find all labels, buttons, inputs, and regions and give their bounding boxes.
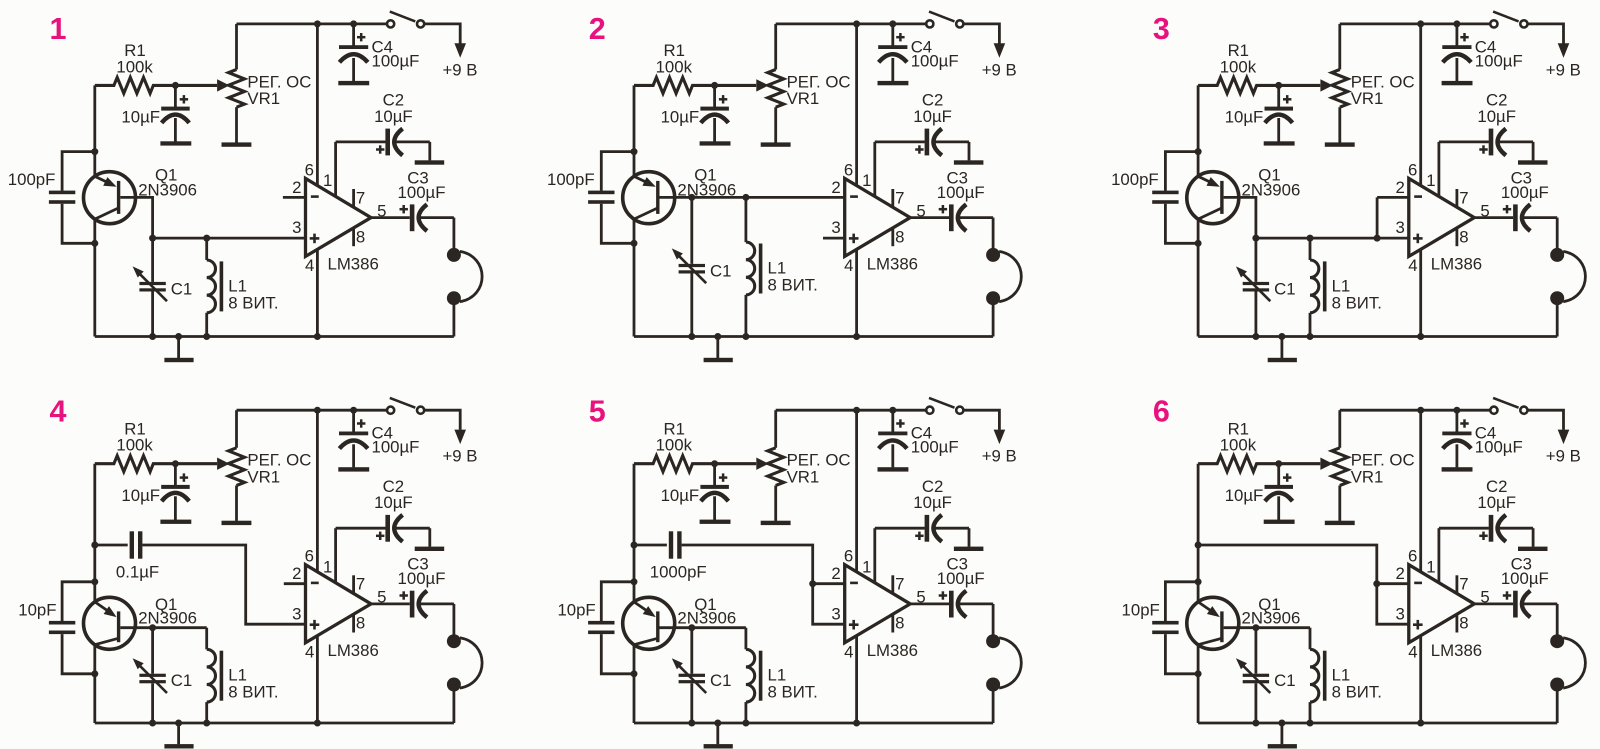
pin 5 output wire — [1474, 201, 1513, 220]
wire C3 to jack — [1556, 218, 1559, 249]
ground (C2) — [415, 547, 445, 551]
op-amp U1 LM386 — [845, 178, 918, 273]
capacitor C3 100uF (polarized) — [398, 555, 454, 618]
pin 5 output wire — [371, 201, 410, 220]
junction base/C1 — [1252, 624, 1259, 631]
svg-text:100µF: 100µF — [911, 51, 959, 70]
output jack tip contact — [1550, 248, 1564, 262]
transistor Q1 2N3906 — [623, 595, 736, 649]
junction node A (emitter/left-cap) — [1195, 578, 1202, 585]
svg-text:7: 7 — [356, 188, 365, 207]
svg-text:3: 3 — [1153, 12, 1170, 46]
resistor R1 100k — [634, 41, 756, 93]
svg-text:100µF: 100µF — [398, 569, 446, 588]
svg-text:4: 4 — [305, 643, 314, 662]
capacitor C3 100uF (polarized) — [937, 168, 993, 231]
wire base to tank — [120, 197, 152, 238]
wire +9V top rail — [237, 22, 387, 25]
svg-text:VR1: VR1 — [787, 468, 820, 487]
junction node B (collector/left-cap) — [1195, 240, 1202, 247]
svg-text:10pF: 10pF — [18, 601, 56, 620]
svg-text:C1: C1 — [710, 261, 731, 280]
junction pin4 on bottom rail — [853, 333, 860, 340]
svg-text:1: 1 — [1426, 171, 1435, 190]
switch SA1 — [926, 398, 963, 414]
ground (C2) — [1518, 547, 1548, 551]
junction C1 bottom — [688, 333, 695, 340]
junction pin6 riser on rail — [314, 407, 321, 414]
output jack tip contact — [447, 634, 461, 648]
capacitor C2 10uF (polarized) — [913, 477, 969, 547]
svg-text:2N3906: 2N3906 — [677, 609, 736, 628]
svg-text:1: 1 — [1426, 558, 1435, 577]
pin 1 — [323, 142, 386, 197]
svg-text:1: 1 — [323, 558, 332, 577]
pin 5 output wire — [910, 201, 949, 220]
capacitor C3 100uF (polarized) — [937, 555, 993, 618]
pin 6 — [305, 410, 318, 572]
capacitor C4 100uF (polarized) — [339, 24, 419, 81]
pin 6 — [844, 24, 857, 186]
pin 3 stub — [823, 237, 845, 240]
ground (C4) — [1442, 81, 1473, 85]
capacitor 10pF — [18, 582, 95, 674]
resistor R1 100k — [1198, 420, 1320, 472]
output jack tip contact — [986, 248, 1000, 262]
junction C1 bottom — [149, 333, 156, 340]
junction pin6 riser on rail — [314, 20, 321, 27]
junction tank/L1 — [203, 235, 210, 242]
pin 7 — [354, 575, 366, 594]
capacitor C2 10uF (polarized) — [374, 477, 430, 547]
pin 1 — [862, 528, 925, 583]
pin 4 — [844, 636, 856, 724]
capacitor C1 (variable) — [1236, 238, 1296, 336]
capacitor C4 100uF (polarized) — [339, 410, 419, 467]
transistor Q1 2N3906 — [1187, 595, 1300, 649]
capacitor 100pF — [1111, 152, 1198, 244]
supply +9V arrow — [982, 430, 1017, 466]
svg-text:3: 3 — [831, 605, 840, 624]
svg-text:7: 7 — [895, 188, 904, 207]
output jack sleeve contact — [986, 678, 1000, 692]
pin 2 stub — [283, 196, 306, 199]
svg-text:LM386: LM386 — [328, 255, 379, 274]
minus input symbol — [1414, 582, 1422, 585]
svg-text:100k: 100k — [656, 57, 693, 76]
svg-text:1: 1 — [323, 171, 332, 190]
svg-text:10µF: 10µF — [913, 107, 952, 126]
wire switch to supply corner — [425, 24, 461, 44]
wire left rail lower — [1197, 219, 1200, 336]
svg-text:3: 3 — [831, 218, 840, 237]
transistor Q1 2N3906 — [1187, 165, 1300, 223]
ground (10uF) — [160, 141, 191, 145]
wire ground bottom rail — [634, 722, 993, 725]
wire +9V top rail — [1340, 22, 1490, 25]
svg-text:8: 8 — [356, 227, 365, 246]
svg-text:C1: C1 — [1274, 279, 1295, 298]
output jack arc — [1563, 638, 1585, 688]
wire switch to supply corner — [1528, 410, 1564, 430]
potentiometer VR1 (REG. OS) — [217, 70, 311, 109]
wire left rail lower — [93, 219, 96, 336]
ground (main) — [1268, 337, 1297, 363]
junction pin4 on bottom rail — [314, 720, 321, 727]
svg-text:100µF: 100µF — [911, 438, 959, 457]
junction C1 bottom — [688, 720, 695, 727]
junction node B (collector/left-cap) — [91, 240, 98, 247]
svg-text:6: 6 — [844, 160, 853, 179]
junction R1/VR1/10uF node — [172, 82, 179, 89]
svg-text:10µF: 10µF — [374, 493, 413, 512]
junction L1 bottom — [1307, 333, 1314, 340]
ground (main) — [704, 337, 733, 363]
wire VR1 bottom lead — [774, 107, 777, 142]
svg-text:VR1: VR1 — [247, 89, 280, 108]
svg-text:5: 5 — [377, 588, 386, 607]
junction base/L1 — [742, 194, 749, 201]
junction node B (collector/left-cap) — [1195, 670, 1202, 677]
svg-text:+9 В: +9 В — [982, 447, 1017, 466]
pin 6 — [305, 24, 318, 186]
svg-text:1000pF: 1000pF — [650, 563, 707, 582]
wire switch to supply corner — [425, 410, 461, 430]
svg-text:100k: 100k — [656, 436, 693, 455]
inductor L1 8 turns — [1310, 628, 1382, 723]
svg-text:0.1µF: 0.1µF — [116, 563, 159, 582]
capacitor 10uF (polarized) — [121, 464, 189, 521]
wire +9V top rail — [776, 22, 926, 25]
pin 4 — [305, 249, 317, 336]
wire base to tank — [1224, 197, 1256, 238]
svg-text:7: 7 — [1459, 188, 1468, 207]
output jack sleeve contact — [1550, 678, 1564, 692]
wire VR1 bottom lead — [1338, 486, 1341, 521]
svg-text:100µF: 100µF — [1501, 569, 1549, 588]
junction pin4 on bottom rail — [1417, 720, 1424, 727]
svg-text:2: 2 — [831, 564, 840, 583]
junction ground stub — [714, 333, 721, 340]
svg-text:100k: 100k — [116, 436, 153, 455]
capacitor C4 100uF (polarized) — [878, 410, 958, 467]
minus input symbol — [850, 582, 858, 585]
ground (C4) — [878, 81, 909, 85]
junction R1/VR1/10uF node — [1275, 82, 1282, 89]
svg-text:+9 В: +9 В — [1546, 60, 1581, 79]
wire base to pin 2 — [660, 196, 845, 199]
capacitor 10uF (polarized) — [661, 85, 729, 142]
output jack sleeve contact — [447, 291, 461, 305]
wire jack to bottom rail — [1556, 298, 1559, 336]
pin 1 — [862, 142, 925, 197]
transistor Q1 2N3906 — [84, 165, 197, 223]
capacitor 0.1uF coupling — [95, 531, 159, 581]
svg-text:C1: C1 — [710, 671, 731, 690]
wire left rail upper — [1197, 464, 1200, 602]
inductor L1 8 turns — [746, 628, 818, 723]
junction C4 on rail — [1453, 407, 1460, 414]
svg-text:4: 4 — [1408, 643, 1417, 662]
wire left rail upper — [633, 85, 636, 176]
pin 7 — [354, 188, 366, 207]
wire C3 to jack — [992, 218, 995, 249]
svg-text:100k: 100k — [1220, 436, 1257, 455]
wire coupling cap to pin 3 — [142, 545, 305, 624]
svg-text:100pF: 100pF — [8, 170, 56, 189]
output jack sleeve contact — [1550, 291, 1564, 305]
svg-text:LM386: LM386 — [328, 641, 379, 660]
wire C3 to jack — [452, 218, 455, 249]
pin 4 — [844, 249, 856, 336]
svg-text:2: 2 — [1395, 564, 1404, 583]
wire left rail upper — [1197, 85, 1200, 176]
svg-text:C1: C1 — [171, 671, 192, 690]
svg-text:8 ВИТ.: 8 ВИТ. — [1332, 683, 1382, 702]
ground (C4) — [338, 467, 369, 471]
wire +9V top rail — [776, 409, 926, 412]
svg-text:VR1: VR1 — [787, 89, 820, 108]
potentiometer VR1 (REG. OS) — [756, 448, 850, 487]
svg-text:8: 8 — [1459, 614, 1468, 633]
output jack tip contact — [447, 248, 461, 262]
junction coupling cap tap on rail — [631, 542, 638, 549]
resistor R1 100k — [95, 420, 217, 472]
svg-text:10µF: 10µF — [1225, 486, 1264, 505]
inductor L1 8 turns — [207, 628, 279, 723]
pin 2 stub — [1377, 196, 1409, 199]
wire base to tank — [1224, 626, 1310, 629]
output jack tip contact — [986, 634, 1000, 648]
capacitor 10pF — [557, 582, 634, 674]
output jack arc — [1563, 251, 1585, 301]
pin 1 — [1426, 142, 1489, 197]
pin 7 — [1457, 575, 1469, 594]
switch SA1 — [1490, 12, 1527, 28]
pin 6 — [1408, 24, 1421, 186]
junction pin4 on bottom rail — [853, 720, 860, 727]
svg-text:8: 8 — [1459, 227, 1468, 246]
svg-text:100pF: 100pF — [1111, 170, 1159, 189]
svg-text:100µF: 100µF — [937, 569, 985, 588]
pin 4 — [1408, 249, 1420, 336]
wire jack to bottom rail — [992, 685, 995, 724]
pin 8 — [893, 614, 905, 633]
wire +9V top rail — [237, 409, 387, 412]
wire base to tank — [120, 626, 206, 629]
wire VR1 top lead — [1338, 410, 1341, 448]
pin 2 stub — [1377, 582, 1409, 585]
plus input symbol — [1413, 234, 1423, 244]
svg-text:10µF: 10µF — [913, 493, 952, 512]
potentiometer VR1 (REG. OS) — [1320, 70, 1414, 109]
junction node B (collector/left-cap) — [91, 670, 98, 677]
junction base/C1 — [688, 194, 695, 201]
capacitor 10uF (polarized) — [1225, 464, 1293, 521]
capacitor 100pF — [547, 152, 634, 244]
transistor Q1 2N3906 — [84, 595, 197, 649]
minus input symbol — [311, 582, 319, 585]
svg-text:8 ВИТ.: 8 ВИТ. — [768, 275, 818, 294]
capacitor C2 10uF (polarized) — [374, 91, 430, 161]
junction riser/tank — [1374, 235, 1381, 242]
minus input symbol — [850, 195, 858, 198]
junction base/C1 — [149, 624, 156, 631]
wire tank to pin 3 — [153, 237, 306, 240]
ground (C4) — [338, 81, 369, 85]
supply +9V arrow — [443, 43, 478, 79]
wire ground bottom rail — [634, 335, 993, 338]
wire C3 to jack — [992, 604, 995, 635]
svg-text:1: 1 — [862, 558, 871, 577]
junction C4 on rail — [1453, 20, 1460, 27]
ground (C2) — [954, 160, 984, 164]
wire VR1 top lead — [774, 410, 777, 448]
wire left rail upper — [93, 464, 96, 602]
wire VR1 bottom lead — [1338, 107, 1341, 142]
junction L1 bottom — [742, 720, 749, 727]
svg-text:8: 8 — [356, 614, 365, 633]
svg-text:2: 2 — [831, 178, 840, 197]
pin 7 — [893, 575, 905, 594]
ground (C2) — [415, 160, 445, 164]
capacitor 1000pF coupling — [634, 531, 707, 581]
pin 1 — [323, 528, 386, 583]
svg-text:6: 6 — [1408, 547, 1417, 566]
output jack arc — [999, 638, 1021, 688]
svg-text:8 ВИТ.: 8 ВИТ. — [768, 683, 818, 702]
wire tank to pin 3 — [1256, 237, 1409, 240]
junction C4 on rail — [889, 20, 896, 27]
svg-text:10µF: 10µF — [661, 108, 700, 127]
svg-text:2N3906: 2N3906 — [138, 609, 197, 628]
supply +9V arrow — [1546, 430, 1581, 466]
capacitor C4 100uF (polarized) — [1442, 410, 1522, 467]
svg-text:6: 6 — [305, 547, 314, 566]
capacitor 10uF (polarized) — [121, 85, 189, 142]
svg-text:2: 2 — [589, 12, 606, 46]
junction direct tap on rail — [1195, 542, 1202, 549]
ground (10uF) — [700, 520, 731, 524]
svg-text:LM386: LM386 — [1431, 255, 1482, 274]
supply +9V arrow — [1546, 43, 1581, 79]
pin 8 — [354, 227, 366, 246]
capacitor 10uF (polarized) — [1225, 85, 1293, 142]
wire jack to bottom rail — [992, 298, 995, 336]
svg-text:5: 5 — [589, 395, 606, 429]
svg-text:100µF: 100µF — [372, 438, 420, 457]
wire ground bottom rail — [95, 722, 454, 725]
wire switch to supply corner — [1528, 24, 1564, 44]
output jack sleeve contact — [447, 678, 461, 692]
potentiometer VR1 (REG. OS) — [756, 70, 850, 109]
svg-text:C1: C1 — [1274, 671, 1295, 690]
junction L1 bottom — [203, 720, 210, 727]
ground (VR1) — [761, 142, 791, 146]
pin 8 — [1457, 227, 1469, 246]
svg-text:VR1: VR1 — [247, 468, 280, 487]
capacitor C2 10uF (polarized) — [1477, 91, 1533, 161]
ground (VR1) — [761, 521, 791, 525]
svg-text:100µF: 100µF — [1475, 438, 1523, 457]
junction R1/VR1/10uF node — [1275, 460, 1282, 467]
junction C4 on rail — [350, 20, 357, 27]
svg-text:2N3906: 2N3906 — [1242, 609, 1301, 628]
svg-text:100µF: 100µF — [1501, 183, 1549, 202]
junction L1 bottom — [1307, 720, 1314, 727]
plus input symbol — [849, 234, 859, 244]
svg-text:4: 4 — [305, 256, 314, 275]
svg-text:10µF: 10µF — [1225, 108, 1264, 127]
svg-text:5: 5 — [916, 588, 925, 607]
svg-text:10µF: 10µF — [121, 486, 160, 505]
wire left rail lower — [93, 645, 96, 723]
junction pin2 takeoff — [1373, 580, 1380, 587]
capacitor C3 100uF (polarized) — [1501, 168, 1557, 231]
junction C1 bottom — [1252, 333, 1259, 340]
svg-text:7: 7 — [895, 575, 904, 594]
pin 8 — [893, 227, 905, 246]
junction pin6 riser on rail — [1417, 407, 1424, 414]
svg-text:3: 3 — [292, 218, 301, 237]
output jack arc — [460, 638, 482, 688]
ground (10uF) — [1264, 520, 1295, 524]
svg-text:4: 4 — [844, 256, 853, 275]
svg-text:4: 4 — [1408, 256, 1417, 275]
svg-text:8: 8 — [895, 227, 904, 246]
capacitor 100pF — [8, 152, 95, 244]
wire C3 to jack — [1556, 604, 1559, 635]
wire ground bottom rail — [95, 335, 454, 338]
pin 6 — [1408, 410, 1421, 572]
svg-text:100pF: 100pF — [547, 170, 595, 189]
capacitor C2 10uF (polarized) — [913, 91, 969, 161]
output jack arc — [999, 251, 1021, 301]
svg-text:7: 7 — [1459, 575, 1468, 594]
wire jack to bottom rail — [452, 685, 455, 724]
ground (main) — [164, 723, 193, 749]
minus input symbol — [311, 195, 319, 198]
junction L1 bottom — [742, 333, 749, 340]
junction node B (collector/left-cap) — [631, 670, 638, 677]
output jack sleeve contact — [986, 291, 1000, 305]
svg-text:2: 2 — [292, 178, 301, 197]
wire VR1 bottom lead — [235, 486, 238, 521]
ground (VR1) — [1325, 142, 1355, 146]
ground (VR1) — [1325, 521, 1355, 525]
svg-text:1: 1 — [862, 171, 871, 190]
pin 4 — [1408, 636, 1420, 724]
pin 6 — [844, 410, 857, 572]
switch SA1 — [387, 12, 424, 28]
junction C4 on rail — [350, 407, 357, 414]
svg-text:100µF: 100µF — [398, 183, 446, 202]
svg-text:C1: C1 — [171, 279, 192, 298]
junction L1 bottom — [203, 333, 210, 340]
svg-text:8 ВИТ.: 8 ВИТ. — [1332, 293, 1382, 312]
svg-text:+9 В: +9 В — [443, 60, 478, 79]
svg-text:10µF: 10µF — [1477, 107, 1516, 126]
minus input symbol — [1414, 195, 1422, 198]
plus input symbol — [849, 620, 859, 630]
ground (C4) — [878, 467, 909, 471]
svg-text:10pF: 10pF — [1122, 601, 1160, 620]
op-amp U1 LM386 — [306, 565, 379, 660]
pin 1 — [1426, 528, 1489, 583]
svg-text:LM386: LM386 — [1431, 641, 1482, 660]
pin 8 — [354, 614, 366, 633]
junction C4 on rail — [889, 407, 896, 414]
